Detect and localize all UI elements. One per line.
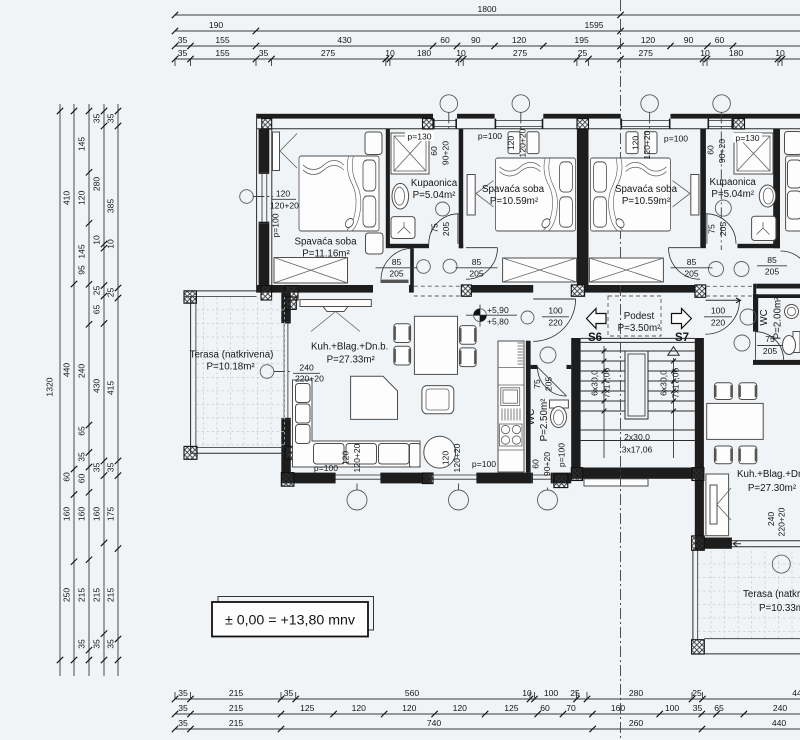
svg-text:120+20: 120+20: [270, 201, 299, 211]
svg-text:35: 35: [106, 114, 116, 124]
column south A: [461, 285, 471, 296]
dim labels bedroom3 window: [631, 130, 689, 159]
axis bubble C: [641, 95, 659, 131]
S7 bottom wall: [704, 538, 732, 549]
svg-text:215: 215: [229, 688, 244, 698]
svg-text:205: 205: [684, 269, 699, 279]
svg-text:p=100: p=100: [271, 213, 281, 237]
stair lower steps: [581, 430, 695, 441]
svg-text:215: 215: [229, 703, 244, 713]
stairwell east wall: [695, 338, 704, 550]
bathroom2 south wall: [738, 244, 781, 248]
axis bubble living window: [260, 365, 292, 379]
WC S7 walls: [753, 294, 800, 365]
chair S7 c: [714, 446, 732, 464]
dim 1800: [172, 4, 624, 18]
svg-text:100: 100: [711, 306, 726, 316]
svg-text:125: 125: [504, 703, 519, 713]
svg-text:180: 180: [729, 48, 744, 58]
svg-text:65: 65: [77, 426, 87, 436]
svg-text:P=27.30m²: P=27.30m²: [748, 483, 797, 494]
svg-text:205: 205: [765, 267, 780, 277]
dim labels bedroom1 window: [270, 189, 299, 238]
dim 75/205 WC S7: [757, 334, 783, 356]
dim 85/205 door bedroom3: [671, 257, 713, 279]
svg-text:1800: 1800: [477, 4, 496, 14]
svg-text:280: 280: [629, 688, 644, 698]
dining table S7: [707, 403, 764, 439]
wardrobe bedroom2: [467, 175, 493, 216]
svg-text:75: 75: [532, 379, 542, 389]
svg-text:220: 220: [711, 318, 726, 328]
svg-text:Kupaonica: Kupaonica: [411, 178, 458, 189]
svg-text:100: 100: [665, 703, 680, 713]
label bedroom3: [615, 184, 678, 207]
svg-text:10: 10: [522, 688, 532, 698]
svg-text:60: 60: [429, 146, 439, 156]
dim 85/205 door unit next: [757, 255, 787, 277]
bathroom2 circle: [715, 200, 731, 216]
dim 75/205 bathroom2: [707, 222, 729, 237]
column bottom SW corner: [281, 473, 294, 487]
svg-text:35: 35: [92, 639, 102, 649]
svg-text:Kuh.+Blag.+Dn.b.: Kuh.+Blag.+Dn.b.: [311, 342, 388, 353]
opening dashes hall S7: [706, 286, 753, 296]
svg-text:60: 60: [540, 703, 550, 713]
window bathroom1 top: [433, 119, 457, 129]
svg-text:275: 275: [321, 48, 336, 58]
stair eye wall: [625, 351, 648, 419]
svg-text:60: 60: [715, 35, 725, 45]
bedroom3 east wall: [700, 129, 706, 248]
dim 75/205 WC S6: [532, 377, 554, 392]
dim labels bathroom1 window: [405, 132, 451, 166]
window bathroom2 top: [708, 119, 734, 129]
svg-text:120: 120: [506, 136, 516, 151]
svg-text:75: 75: [430, 223, 440, 233]
svg-text:160: 160: [92, 507, 102, 522]
bathroom1 circle: [436, 202, 450, 216]
svg-text:240: 240: [77, 364, 87, 379]
svg-text:1320: 1320: [45, 377, 55, 396]
terrace S6 edges: [184, 291, 298, 453]
svg-text:205: 205: [469, 269, 484, 279]
svg-text:P=10.59m²: P=10.59m²: [490, 196, 539, 207]
svg-text:90+20: 90+20: [717, 139, 727, 163]
toilet WC S7: [783, 332, 800, 355]
sideboard living S6: [300, 300, 371, 332]
label WC S6: [526, 398, 550, 441]
podest dashed zone: [608, 296, 661, 336]
door bathroom2: [706, 214, 736, 244]
svg-text:120: 120: [512, 35, 527, 45]
dim labels bathroom2 window: [706, 133, 763, 163]
svg-text:35: 35: [77, 452, 87, 462]
label living S6: [311, 342, 388, 366]
svg-text:160: 160: [62, 507, 72, 522]
dim row 35 155 430 60 90 120 195 120 90 60: [172, 35, 736, 49]
svg-text:90: 90: [471, 35, 481, 45]
nightstand bedroom2 b: [527, 132, 539, 154]
svg-text:215: 215: [92, 588, 102, 603]
svg-text:P=10.33m²: P=10.33m²: [759, 603, 800, 614]
svg-text:35: 35: [693, 703, 703, 713]
stairwell west wall: [571, 338, 580, 468]
shower bathroom1: [391, 133, 429, 174]
washbasin bathroom2: [759, 185, 775, 207]
svg-text:120+20: 120+20: [452, 443, 462, 472]
svg-text:65: 65: [714, 703, 724, 713]
nightstand bedroom2 a: [508, 132, 520, 154]
svg-text:120: 120: [341, 451, 351, 466]
svg-text:95: 95: [77, 265, 87, 275]
svg-text:3x17,06: 3x17,06: [622, 445, 653, 455]
column bottom kitchen: [554, 474, 568, 488]
stairwell south wall: [571, 468, 704, 479]
svg-text:p=100: p=100: [478, 131, 502, 141]
svg-text:35: 35: [178, 703, 188, 713]
svg-text:155: 155: [215, 48, 230, 58]
svg-text:P=11.16m²: P=11.16m²: [302, 249, 350, 260]
svg-text:250: 250: [62, 588, 72, 603]
svg-text:+5,90: +5,90: [487, 305, 509, 315]
svg-text:P=27.33m²: P=27.33m²: [327, 355, 376, 366]
dim 75/205 bathroom1: [430, 222, 452, 237]
svg-text:120+20: 120+20: [642, 130, 652, 159]
svg-text:120: 120: [641, 35, 656, 45]
column terrace SW: [184, 446, 197, 459]
nightstand bedroom1 bottom: [366, 233, 384, 254]
bottom wall S6: [281, 473, 571, 484]
level box: [212, 602, 368, 637]
column terrace SE: [285, 446, 298, 459]
svg-text:205: 205: [389, 269, 404, 279]
dim window S7 east: [766, 507, 787, 536]
svg-text:215: 215: [229, 718, 244, 728]
bench bedroom3: [589, 258, 663, 282]
svg-text:70: 70: [566, 703, 576, 713]
svg-text:WC: WC: [526, 409, 537, 425]
WC S6 door hinge block: [567, 365, 572, 369]
south wall of bedroom row: [257, 285, 695, 293]
svg-text:35: 35: [284, 688, 294, 698]
dim living window S6: [293, 363, 324, 384]
svg-text:125: 125: [300, 703, 315, 713]
svg-text:120: 120: [77, 190, 87, 205]
dim bottom window2 S6: [441, 443, 497, 472]
column south B: [571, 285, 584, 296]
svg-text:35: 35: [178, 718, 188, 728]
kitchen WC wall S6: [526, 341, 531, 473]
svg-text:Spavaća soba: Spavaća soba: [482, 184, 545, 195]
svg-text:180: 180: [417, 48, 432, 58]
svg-text:440: 440: [772, 718, 787, 728]
armchair S6: [422, 386, 454, 414]
svg-text:120: 120: [352, 703, 367, 713]
svg-text:p=100: p=100: [314, 463, 338, 473]
terrace S6 tile grid: [197, 297, 286, 447]
svg-text:155: 155: [215, 35, 230, 45]
svg-text:35: 35: [178, 48, 188, 58]
bed bedroom2: [496, 158, 576, 231]
svg-text:75: 75: [707, 224, 717, 234]
svg-text:120+20: 120+20: [352, 443, 362, 472]
svg-text:p=130: p=130: [407, 132, 431, 142]
svg-text:S7: S7: [675, 332, 689, 344]
svg-text:740: 740: [427, 718, 442, 728]
svg-text:P=10.18m²: P=10.18m²: [206, 362, 255, 373]
label bedroom2: [482, 184, 545, 207]
stair labels: [590, 367, 681, 454]
bathroom1 west wall: [386, 129, 390, 244]
wall stub S7 hall: [753, 284, 756, 298]
entry S6 circle: [521, 311, 534, 324]
entry step S6: [584, 479, 648, 486]
column living west top: [285, 297, 296, 310]
hall S6 circle a: [417, 260, 431, 274]
door entry S6: [533, 299, 575, 341]
svg-text:P=3.50m²: P=3.50m²: [618, 323, 661, 334]
chair S6 b: [394, 346, 411, 365]
label WC S7: [759, 296, 783, 339]
svg-text:90+20: 90+20: [441, 141, 451, 165]
kitchen S7: [706, 474, 731, 536]
svg-text:25: 25: [578, 48, 588, 58]
dim 85/205 door bedroom1: [376, 257, 418, 279]
svg-text:120+20: 120+20: [518, 128, 528, 157]
exterior top wall: [257, 114, 800, 129]
door entry S7: [706, 298, 741, 334]
label terrace S6: [190, 350, 274, 373]
svg-text:120: 120: [453, 703, 468, 713]
label bedroom1: [294, 237, 357, 260]
dining table S6: [414, 316, 457, 374]
stairwell north edge: [581, 338, 695, 342]
svg-text:P=5.04m²: P=5.04m²: [711, 189, 754, 200]
column axis A: [423, 119, 434, 129]
sofa S6: [293, 380, 421, 467]
label bathroom2: [710, 177, 757, 200]
svg-text:260: 260: [629, 718, 644, 728]
svg-text:25: 25: [92, 286, 102, 296]
svg-text:P=10.59m²: P=10.59m²: [622, 196, 671, 207]
svg-text:240: 240: [773, 703, 788, 713]
dim 100/220 S6 entry: [542, 306, 569, 328]
dim kitchen window S6: [531, 443, 567, 476]
column stair SW: [571, 468, 582, 481]
nightstand bedroom1 top: [365, 132, 382, 155]
axis bubble B: [512, 95, 530, 131]
door next unit arc: [781, 251, 800, 281]
window living west 240: [281, 322, 291, 420]
stair dim line right: [671, 358, 676, 458]
svg-text:215: 215: [106, 588, 116, 603]
column stair SE: [692, 468, 704, 481]
svg-text:Kuh.+Blag.+Dn.b.: Kuh.+Blag.+Dn.b.: [737, 469, 800, 480]
svg-text:205: 205: [544, 377, 554, 392]
svg-text:10: 10: [456, 48, 466, 58]
bottom dimension block: [172, 688, 800, 732]
living room west wall: [281, 293, 291, 473]
chair S6 d: [459, 348, 476, 367]
nightstand bedroom3 a: [626, 132, 638, 154]
left dimension block: [45, 104, 122, 676]
svg-text:Podest: Podest: [624, 311, 655, 322]
svg-text:S6: S6: [588, 332, 602, 344]
svg-text:120: 120: [402, 703, 417, 713]
round table S6: [424, 436, 456, 468]
hall S6 circle b: [443, 259, 457, 273]
svg-text:100: 100: [548, 306, 563, 316]
svg-text:60: 60: [62, 472, 72, 482]
dim 100/220 S7 entry: [704, 306, 732, 328]
svg-text:p=100: p=100: [557, 443, 567, 467]
svg-text:25: 25: [692, 688, 702, 698]
svg-text:6x30,0: 6x30,0: [590, 370, 600, 396]
svg-text:Terasa (natkrivena): Terasa (natkrivena): [190, 350, 274, 361]
column S7 terrace: [692, 640, 705, 654]
arrow S6: [587, 309, 607, 329]
svg-text:220: 220: [548, 318, 563, 328]
svg-text:7x17,06: 7x17,06: [671, 367, 681, 398]
svg-text:85: 85: [767, 255, 777, 265]
svg-text:85: 85: [472, 257, 482, 267]
svg-text:90+20: 90+20: [542, 452, 552, 476]
svg-text:85: 85: [687, 257, 697, 267]
svg-text:120: 120: [631, 136, 641, 151]
washbasin WC S7: [785, 305, 799, 319]
window S6 bottom 1: [334, 473, 382, 484]
top dimension block: [172, 4, 800, 66]
chair S7 b: [739, 383, 757, 400]
chair S7 a: [714, 383, 732, 400]
svg-text:60: 60: [77, 474, 87, 484]
bathroom2 east wall: [773, 129, 780, 248]
svg-text:P=2.00m²: P=2.00m²: [773, 296, 784, 339]
stair dim line left: [602, 346, 607, 458]
coffee table S6: [351, 376, 398, 419]
svg-text:160: 160: [611, 703, 626, 713]
svg-text:25: 25: [106, 288, 116, 298]
left dim labels: [45, 114, 116, 649]
bed bedroom1: [299, 156, 379, 231]
axis bubble bedroom1 window: [240, 190, 273, 204]
svg-text:220+20: 220+20: [295, 374, 324, 384]
terrace S7 edges: [693, 550, 800, 654]
chair S6 a: [394, 324, 411, 343]
svg-text:p=130: p=130: [735, 133, 759, 143]
svg-text:35: 35: [178, 688, 188, 698]
svg-text:220+20: 220+20: [777, 507, 787, 536]
svg-text:120: 120: [441, 451, 451, 466]
column top-left: [262, 119, 272, 129]
svg-text:160: 160: [77, 507, 87, 522]
svg-text:6x30,0: 6x30,0: [659, 370, 669, 396]
shower bathroom2: [734, 133, 773, 174]
terrace S7 tile grid: [698, 551, 800, 638]
svg-text:10: 10: [775, 48, 785, 58]
hall S7 circle b: [734, 262, 749, 277]
bathroom1 east wall: [459, 129, 464, 248]
svg-text:35: 35: [106, 463, 116, 473]
dim bottom window1 S6: [314, 443, 362, 473]
svg-text:430: 430: [337, 35, 352, 45]
nightstand next unit: [785, 132, 800, 155]
dim 85/205 door bedroom2: [456, 257, 498, 279]
svg-text:10: 10: [385, 48, 395, 58]
svg-text:275: 275: [639, 48, 654, 58]
door WC S7: [756, 332, 784, 360]
svg-text:60: 60: [531, 459, 541, 469]
door bathroom1: [429, 214, 459, 244]
washbasin bathroom1: [392, 183, 409, 209]
door bedroom1: [381, 248, 413, 283]
stair steps left flight: [581, 351, 625, 411]
south wall next unit: [756, 284, 800, 289]
svg-text:190: 190: [209, 20, 224, 30]
dim 190 / 1595: [172, 20, 624, 34]
svg-text:385: 385: [106, 199, 116, 214]
svg-text:560: 560: [405, 688, 420, 698]
svg-text:+5,80: +5,80: [487, 317, 509, 327]
column axis B: [733, 119, 744, 129]
toilet WC S6: [550, 400, 569, 428]
svg-text:240: 240: [766, 512, 776, 527]
svg-text:410: 410: [62, 191, 72, 206]
svg-text:85: 85: [392, 257, 402, 267]
dim row 35 155 35 275 10 180 10 275 25 275 10 180 10: [172, 48, 785, 66]
svg-text:205: 205: [763, 346, 778, 356]
door WC S6: [538, 367, 567, 396]
bathroom1 south wall: [386, 244, 463, 248]
label living S7: [737, 469, 800, 494]
entry S7 circle a: [740, 309, 756, 325]
svg-text:Spavaća soba: Spavaća soba: [615, 184, 678, 195]
svg-text:35: 35: [92, 463, 102, 473]
opening dashes hall S6: [414, 286, 462, 296]
svg-text:205: 205: [441, 222, 451, 237]
bench bedroom1: [274, 258, 348, 284]
door bedroom3: [669, 248, 701, 280]
svg-text:240: 240: [299, 363, 314, 373]
window bedroom1 left: [259, 172, 270, 223]
svg-text:100: 100: [544, 688, 559, 698]
svg-text:430: 430: [92, 379, 102, 394]
toilet bathroom2: [752, 216, 776, 240]
level box shadow: [218, 597, 374, 631]
svg-text:65: 65: [92, 305, 102, 315]
bench bedroom2: [503, 258, 577, 282]
label terrace S7: [743, 589, 800, 614]
svg-text:35: 35: [259, 48, 269, 58]
svg-text:± 0,00 = +13,80 mnv: ± 0,00 = +13,80 mnv: [225, 613, 356, 629]
main grid axis vertical: [620, 0, 622, 740]
axis bubbles bottom: [347, 484, 558, 511]
svg-text:60: 60: [440, 35, 450, 45]
S7 east window lines: [732, 541, 800, 547]
svg-text:35: 35: [77, 639, 87, 649]
svg-text:1595: 1595: [584, 20, 603, 30]
podest label: [618, 311, 661, 334]
axis bubble D: [713, 95, 731, 250]
column S7 bottom: [692, 536, 705, 550]
apartment separation wall: [577, 129, 589, 285]
window bedroom3 top: [621, 119, 671, 129]
column bottom mid: [422, 473, 433, 484]
label bathroom1: [411, 178, 458, 201]
svg-text:25: 25: [570, 688, 580, 698]
WC S6 circle: [540, 347, 556, 363]
